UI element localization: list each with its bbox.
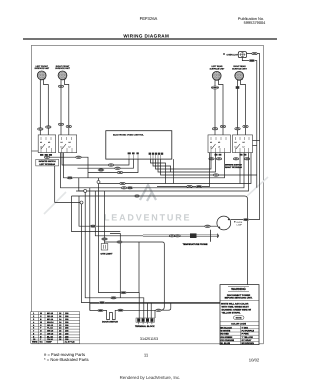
wire ovn light out — [105, 242, 165, 310]
svg-text:SURFACE UNIT: SURFACE UNIT — [34, 67, 49, 70]
svg-text:11: 11 — [144, 352, 149, 357]
wire v probe feed — [95, 191, 143, 236]
wire RR right lead — [241, 80, 246, 135]
svg-text:LAMP: LAMP — [237, 223, 243, 226]
stub from label area — [54, 166, 56, 203]
svg-text:L2: L2 — [69, 146, 71, 149]
svg-text:WH-14: WH-14 — [47, 321, 54, 324]
oven lamp circle — [217, 216, 231, 230]
connector ovals under right switches — [209, 158, 214, 160]
label left front surface unit — [34, 65, 49, 70]
svg-text:TEMPERATURE PROBE: TEMPERATURE PROBE — [183, 243, 208, 246]
wire right long via 247.5 down — [157, 153, 210, 187]
wire v 71.5 — [72, 196, 121, 232]
connector on RF lead — [58, 85, 63, 87]
wire EOC left pin c — [88, 159, 138, 172]
plug connector on RR lead — [236, 86, 240, 89]
EOC bottom-right pin marks — [149, 153, 164, 155]
cascade connectors below EOC — [108, 164, 113, 166]
svg-text:H2: H2 — [243, 141, 245, 144]
svg-text:WARNING: WARNING — [231, 287, 246, 291]
connectors each side — [118, 309, 124, 311]
pins inside LF switch — [41, 137, 52, 153]
svg-text:OVN LIGHT: OVN LIGHT — [101, 252, 114, 255]
probe jack cross — [210, 230, 212, 242]
wire LF right lead — [44, 80, 49, 136]
svg-text:FEF326A: FEF326A — [140, 16, 158, 21]
probe hatched block — [190, 233, 197, 238]
surface unit circle RF — [58, 71, 67, 80]
stubs from right switch to rails — [253, 140, 260, 142]
svg-text:H2: H2 — [69, 141, 71, 144]
wire EOC p3 to right switch — [156, 153, 212, 169]
wire RR left lead — [237, 80, 239, 135]
svg-text:# = Fast-moving Parts: # = Fast-moving Parts — [44, 352, 85, 357]
svg-text:NOTE: NOTE — [236, 317, 242, 320]
wire LF left lead — [39, 80, 41, 136]
svg-text:H2: H2 — [48, 141, 50, 144]
oven lamp symbol — [238, 52, 246, 58]
wire lamp bottom — [242, 58, 256, 188]
EOC bottom-left pin marks — [128, 152, 139, 154]
svg-text:TN-16: TN-16 — [47, 338, 54, 341]
wire EOC p1 to mid vertical — [151, 159, 166, 183]
electronic oven control box — [106, 131, 172, 159]
wire LR left lead — [214, 80, 216, 135]
probe shaft — [143, 234, 219, 238]
ground stub — [32, 150, 39, 152]
label oven lamp — [234, 221, 235, 222]
svg-text:LEFT FRT/REAR: LEFT FRT/REAR — [39, 163, 55, 166]
wire EOC p5 to right area — [161, 159, 257, 175]
svg-text:H1: H1 — [235, 141, 237, 144]
switch lever marks — [41, 144, 240, 149]
label right rear surface unit — [232, 65, 247, 70]
svg-text:OR-16: OR-16 — [47, 333, 54, 336]
wire LR right lead — [219, 80, 224, 135]
label right front surface unit — [55, 65, 70, 70]
infinite switch box left-front — [38, 135, 56, 153]
svg-text:EXAMINE: GREEN WIRE W/: EXAMINE: GREEN WIRE W/ — [222, 308, 252, 311]
long horizontal h187.8 — [79, 153, 245, 188]
svg-text:LEADVENTURE: LEADVENTURE — [104, 213, 191, 223]
wire RF left lead — [60, 80, 62, 136]
svg-text:L2: L2 — [243, 146, 245, 149]
svg-text:INFINITE SWITCH: INFINITE SWITCH — [39, 160, 56, 163]
svg-text:DOOR SWITCH: DOOR SWITCH — [102, 321, 118, 324]
svg-text:AL STYLE: AL STYLE — [65, 341, 76, 344]
wire RF right lead — [65, 80, 69, 136]
surface unit circle RR — [235, 71, 244, 80]
table cell text — [32, 312, 75, 343]
connector right of switch — [117, 241, 123, 243]
long horizontal h191 — [76, 153, 249, 191]
left bundle verticals — [99, 178, 140, 318]
wire big-box left — [110, 234, 120, 298]
svg-text:314251153: 314251153 — [140, 337, 158, 341]
wire EOC left pin a — [62, 153, 129, 165]
label infinite switch right — [225, 163, 242, 169]
surface unit circle LF — [37, 71, 46, 80]
svg-text:H1: H1 — [61, 141, 63, 144]
svg-text:YELLOW STRIPE.: YELLOW STRIPE. — [222, 311, 241, 314]
svg-text:SURFACE UNIT: SURFACE UNIT — [232, 67, 247, 70]
svg-text:GA: GA — [40, 341, 44, 344]
wire EOC p2 right — [153, 159, 171, 172]
lens connector on LR lead — [211, 86, 218, 89]
svg-text:L1: L1 — [210, 146, 212, 149]
wire EOC p4 to right switch — [158, 153, 216, 172]
svg-text:BK-14: BK-14 — [47, 318, 54, 321]
svg-text:Rendered by LeadVenture, Inc.: Rendered by LeadVenture, Inc. — [120, 375, 181, 380]
svg-text:* = Non-Illustrated Parts: * = Non-Illustrated Parts — [44, 357, 89, 362]
long horizontal h183.5 — [100, 153, 252, 184]
svg-text:COLOR CODE: COLOR CODE — [231, 323, 246, 326]
wire h226 to lamp — [79, 196, 217, 226]
wire ovn light vertical — [104, 191, 106, 244]
connector — [249, 59, 255, 61]
label box infinite switch left — [36, 159, 59, 166]
terminal block — [136, 318, 155, 324]
svg-text:H2: H2 — [218, 141, 220, 144]
connector ovals above right switches — [212, 128, 217, 130]
pin cluster marks below — [40, 154, 52, 156]
header rule — [23, 38, 277, 40]
lamp right wire — [231, 219, 260, 221]
svg-text:RD-12: RD-12 — [47, 324, 54, 327]
connector — [252, 52, 257, 54]
border frame — [32, 45, 264, 344]
svg-text:SURFACE UNIT: SURFACE UNIT — [210, 67, 225, 70]
svg-text:BL BLUE: BL BLUE — [221, 342, 231, 345]
oven light switch body — [101, 244, 108, 251]
svg-text:DISCONNECT POWER: DISCONNECT POWER — [227, 294, 251, 297]
svg-text:L1: L1 — [61, 146, 63, 149]
svg-text:YL-14: YL-14 — [47, 327, 54, 330]
svg-text:H1: H1 — [210, 141, 212, 144]
wire from pins right — [46, 157, 88, 178]
connector ovals above left switch — [38, 128, 43, 130]
horizontal h200 to junction — [55, 202, 82, 204]
svg-text:WIRE: WIRE — [32, 341, 38, 344]
svg-text:WHITE WILL ASH COLOR: WHITE WILL ASH COLOR — [221, 302, 249, 305]
watermark faint swooshes — [44, 192, 66, 214]
svg-text:L1: L1 — [235, 146, 237, 149]
long horizontal h178 — [64, 153, 225, 178]
pin cluster marks below right switches — [215, 154, 247, 156]
svg-text:BK-16: BK-16 — [47, 312, 54, 315]
svg-text:BR BROWN: BR BROWN — [242, 342, 255, 345]
label oven light — [223, 53, 225, 55]
svg-text:W: W — [40, 321, 42, 324]
svg-text:SURFACE UNIT: SURFACE UNIT — [55, 67, 70, 70]
surface unit circle LR — [212, 71, 221, 80]
door switch squarewave — [105, 310, 118, 319]
pins inside LR switch — [62, 137, 73, 153]
svg-text:BEFORE SERVICING UNIT.: BEFORE SERVICING UNIT. — [225, 297, 253, 300]
svg-text:5995379004: 5995379004 — [244, 20, 266, 25]
junction circles — [84, 189, 87, 192]
svg-text:WITH TIME. WIRES MUST: WITH TIME. WIRES MUST — [222, 305, 250, 308]
svg-text:WIRING DIAGRAM: WIRING DIAGRAM — [123, 34, 169, 39]
wire EOC left pin b — [78, 159, 134, 168]
svg-text:RD-16: RD-16 — [47, 315, 54, 318]
infinite switch box right-rear — [233, 135, 253, 153]
svg-text:10/02: 10/02 — [249, 358, 260, 363]
wire door switch run — [90, 310, 105, 312]
wire lamp right — [247, 54, 260, 220]
watermark logo mark — [140, 185, 156, 201]
svg-text:TERMINAL BLOCK: TERMINAL BLOCK — [135, 325, 155, 328]
svg-text:TEMP: TEMP — [46, 341, 52, 344]
svg-text:ELECTRONIC OVEN CONTROL: ELECTRONIC OVEN CONTROL — [113, 134, 144, 137]
svg-text:GN-16: GN-16 — [47, 330, 54, 333]
svg-text:H1: H1 — [40, 141, 42, 144]
svg-text:L2: L2 — [218, 146, 220, 149]
svg-text:W: W — [40, 312, 42, 315]
stub right of EOC — [173, 159, 175, 183]
infinite switch box right-front — [208, 135, 231, 153]
connectors on long runs — [67, 177, 73, 179]
probe connectors — [169, 235, 174, 237]
infinite switch box left-rear — [59, 135, 77, 153]
long horizontal h196 — [72, 195, 191, 197]
svg-text:L2: L2 — [48, 146, 50, 149]
label left rear surface unit — [210, 65, 225, 70]
connector above — [102, 238, 108, 240]
